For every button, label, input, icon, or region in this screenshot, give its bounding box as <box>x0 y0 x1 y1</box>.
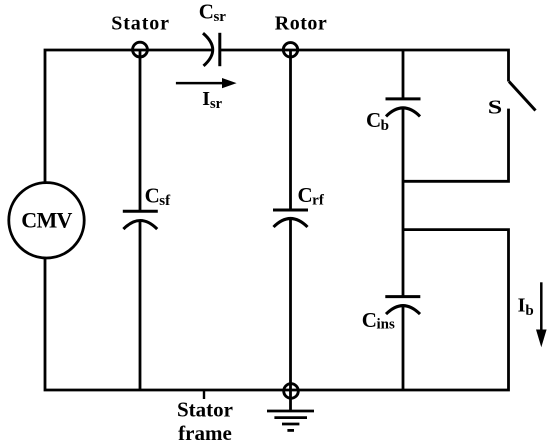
arrow Isr <box>176 78 237 112</box>
node Stator-frame tick <box>203 390 205 399</box>
svg-text:CMV: CMV <box>21 208 72 233</box>
source CMV <box>9 183 84 258</box>
capacitor Cb <box>366 99 421 134</box>
svg-text:S: S <box>488 96 502 118</box>
wire Cb branch middle <box>402 108 405 297</box>
node Rotor <box>283 43 297 57</box>
wire rotor branch upper <box>289 50 292 210</box>
node Stator <box>133 42 148 57</box>
arrow Ib <box>518 282 547 347</box>
wire rung1: switch lower terminal down to horizontal link <box>403 109 509 182</box>
svg-text:Rotor: Rotor <box>275 13 327 35</box>
wire top-left: top bus left segment and left vertical down to CMV <box>45 50 212 182</box>
switch S blade <box>509 82 536 111</box>
svg-text:frame: frame <box>178 421 232 445</box>
node ground junction <box>284 384 299 399</box>
svg-text:Stator: Stator <box>111 13 170 35</box>
capacitor Csr <box>199 0 227 66</box>
svg-text:Stator: Stator <box>177 398 233 422</box>
wire stator branch lower <box>139 221 142 391</box>
wire Cb branch lower <box>402 306 405 391</box>
capacitor Cins <box>362 297 421 333</box>
label Stator frame <box>177 398 233 446</box>
wire stator branch upper <box>139 50 142 211</box>
capacitor Csf <box>123 183 171 229</box>
wire Cb branch upper <box>402 50 405 99</box>
capacitor Crf <box>273 183 325 227</box>
wire top-right: top bus right segment and right vertical down to switch top <box>220 50 509 82</box>
ground <box>267 411 314 430</box>
wire rotor branch lower <box>289 219 292 411</box>
wire bottom: left stub below CMV, bottom bus, right vertical up to rung2 <box>45 230 509 390</box>
